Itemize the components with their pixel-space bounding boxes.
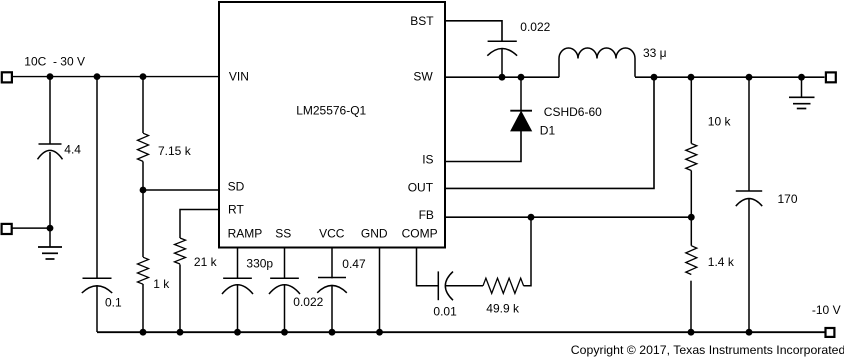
svg-text:-10 V: -10 V	[812, 303, 841, 317]
svg-text:33 μ: 33 μ	[643, 46, 667, 60]
svg-text:BST: BST	[410, 14, 434, 28]
resistor 1 k	[138, 190, 171, 332]
svg-text:0.022: 0.022	[520, 20, 550, 34]
wire terminal to ground node	[13, 227, 51, 229]
svg-text:COMP: COMP	[402, 226, 438, 240]
wire COMP pin down and left of 0.01	[417, 248, 439, 286]
wire FB pin	[445, 216, 691, 218]
wire SW pin	[445, 76, 559, 78]
input terminal	[2, 72, 12, 82]
op-amp U1 regulator box LM25576-Q1	[219, 2, 445, 248]
node junction BST cap	[499, 74, 506, 81]
resistor 10 k	[686, 77, 732, 217]
svg-text:VIN: VIN	[229, 70, 249, 84]
svg-text:FB: FB	[419, 208, 434, 222]
svg-text:SD: SD	[228, 179, 245, 193]
svg-text:0.01: 0.01	[433, 304, 457, 318]
output terminal right	[826, 72, 836, 82]
node junction SD	[140, 187, 147, 194]
svg-text:LM25576-Q1: LM25576-Q1	[296, 104, 366, 118]
svg-text:49.9 k: 49.9 k	[486, 301, 520, 315]
node junction at x=143	[140, 73, 147, 80]
node junction at x=97	[94, 73, 101, 80]
svg-text:0.47: 0.47	[342, 257, 366, 271]
ground right	[789, 77, 815, 108]
capacitor 170	[736, 77, 798, 332]
wire cap to resistor	[445, 285, 483, 287]
node junction OUT wire	[651, 74, 658, 81]
resistor 21 k	[175, 238, 218, 332]
node junction 170 cap top	[746, 74, 753, 81]
node junction right ground	[798, 74, 805, 81]
svg-text:RAMP: RAMP	[228, 226, 263, 240]
inductor 33u	[559, 46, 667, 77]
node junction at ground	[47, 225, 54, 232]
svg-text:170: 170	[778, 192, 798, 206]
node junction VCC cap bottom	[329, 329, 336, 336]
resistor 7.15 k	[138, 77, 192, 190]
left return terminal	[2, 224, 12, 234]
bottom rail wire	[97, 331, 825, 333]
resistor 49.9 k	[483, 278, 524, 315]
node junction 1.4k bottom	[688, 329, 695, 336]
ground left	[38, 228, 62, 259]
capacitor 0.1	[82, 77, 122, 332]
svg-text:4.4: 4.4	[64, 143, 81, 157]
node junction GND bottom	[376, 329, 383, 336]
capacitor 330p	[222, 248, 273, 333]
svg-text:330p: 330p	[246, 257, 273, 271]
svg-text:SW: SW	[413, 69, 433, 83]
node junction 10k top	[688, 74, 695, 81]
node junction 1k bottom	[140, 329, 147, 336]
wire inductor to output terminal	[635, 76, 825, 78]
node junction FB/comp	[528, 214, 535, 221]
node junction diode	[518, 74, 525, 81]
wire input rail to VIN	[13, 76, 219, 78]
node junction 170 bottom	[746, 329, 753, 336]
wire BST pin	[445, 21, 502, 41]
svg-text:1 k: 1 k	[153, 277, 170, 291]
capacitor 0.022 (SS)	[269, 248, 324, 333]
svg-text:Copyright © 2017, Texas Instru: Copyright © 2017, Texas Instruments Inco…	[571, 343, 844, 357]
svg-text:10 k: 10 k	[708, 114, 732, 128]
capacitor 0.022 (BST)	[487, 20, 550, 77]
node junction RAMP cap bottom	[234, 329, 241, 336]
capacitor 0.47 (VCC)	[317, 248, 366, 333]
svg-text:D1: D1	[540, 124, 556, 138]
svg-text:OUT: OUT	[408, 180, 434, 194]
svg-text:SS: SS	[275, 226, 291, 240]
svg-text:IS: IS	[422, 153, 433, 167]
node junction SS cap bottom	[281, 329, 288, 336]
resistor 1.4 k	[686, 217, 735, 332]
svg-text:CSHD6-60: CSHD6-60	[544, 105, 602, 119]
svg-text:0.022: 0.022	[293, 295, 323, 309]
svg-text:0.1: 0.1	[105, 296, 122, 310]
wire RT pin	[180, 210, 219, 239]
wire OUT pin	[445, 77, 654, 188]
capacitor 4.4	[38, 77, 82, 229]
node junction 21k bottom	[177, 329, 184, 336]
svg-text:VCC: VCC	[319, 226, 345, 240]
svg-text:21 k: 21 k	[194, 255, 218, 269]
node junction FB divider	[688, 214, 695, 221]
svg-text:7.15 k: 7.15 k	[158, 144, 192, 158]
diode D1 CSHD6-60	[510, 77, 602, 137]
output terminal -10V	[826, 328, 835, 337]
svg-text:GND: GND	[361, 226, 388, 240]
wire resistor up to FB	[524, 217, 532, 286]
node junction at x=50	[47, 73, 54, 80]
wire GND pin down	[379, 248, 381, 333]
wire IS pin	[445, 131, 521, 162]
capacitor 0.01	[433, 271, 457, 318]
svg-text:RT: RT	[228, 203, 244, 217]
svg-text:1.4 k: 1.4 k	[708, 255, 735, 269]
wire SD pin	[143, 189, 219, 191]
svg-text:10C - 30 V: 10C - 30 V	[24, 54, 85, 68]
